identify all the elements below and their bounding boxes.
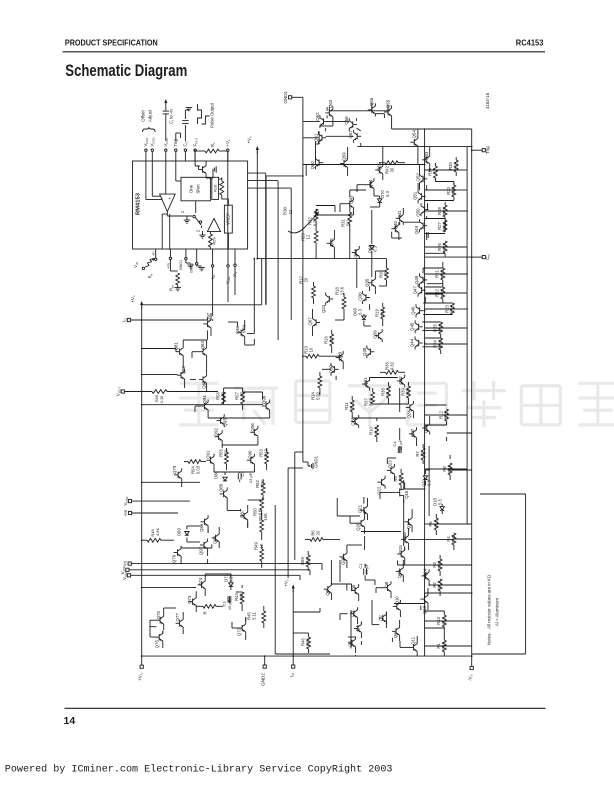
svg-text:GND1: GND1 [314,455,319,468]
svg-text:Q38: Q38 [362,347,367,356]
svg-text:GND1: GND1 [283,90,288,103]
svg-text:Q35: Q35 [364,278,369,287]
svg-text:Q15: Q15 [398,545,403,554]
svg-text:Q33: Q33 [321,304,326,313]
svg-text:Q36: Q36 [358,292,363,301]
svg-text:Q50: Q50 [416,208,421,217]
svg-text:6.8: 6.8 [305,557,310,563]
svg-text:4.82: 4.82 [390,361,395,370]
svg-text:C4: C4 [392,441,397,447]
svg-text:Q16: Q16 [402,532,407,541]
svg-text:Q40: Q40 [393,220,398,229]
svg-text:Trig: Trig [485,146,490,154]
svg-text:12: 12 [288,209,293,214]
svg-text:Q72: Q72 [237,627,242,636]
svg-text:Q31: Q31 [363,377,368,386]
svg-text:Q46: Q46 [411,306,416,315]
svg-text:Q42: Q42 [329,238,334,247]
svg-text:13 pF: 13 pF [248,472,253,483]
svg-text:20: 20 [316,530,321,535]
svg-text:Q4: Q4 [355,625,360,631]
svg-text:Q52: Q52 [416,173,421,182]
svg-text:Q76: Q76 [156,610,161,619]
svg-text:NPN: NPN [242,325,247,334]
svg-text:Q21: Q21 [357,504,362,513]
svg-text:51.1: 51.1 [349,401,354,410]
svg-text:Q66: Q66 [235,325,240,334]
svg-text:GND2: GND2 [261,673,266,686]
svg-text:Q78: Q78 [172,554,177,563]
svg-text:Q18: Q18 [404,490,409,498]
svg-text:+: + [167,197,172,200]
svg-text:Q77: Q77 [175,613,180,622]
svg-text:200: 200 [239,593,244,601]
svg-text:Q12: Q12 [397,569,402,578]
svg-text:Q58: Q58 [344,116,349,125]
svg-text:Q5: Q5 [350,610,355,616]
svg-text:C3: C3 [222,601,227,607]
svg-text:10: 10 [309,347,314,352]
svg-text:Q8: Q8 [384,581,389,587]
svg-text:GND2: GND2 [190,263,194,274]
svg-text:Powered by ICminer.com Electro: Powered by ICminer.com Electronic-Librar… [5,763,393,775]
svg-text:47.5: 47.5 [374,426,379,435]
svg-text:Q74: Q74 [198,577,203,586]
svg-text:R30: R30 [283,206,288,214]
svg-text:Q27: Q27 [410,428,415,437]
svg-text:Q11: Q11 [411,636,416,645]
svg-text:0.02: 0.02 [240,391,245,400]
svg-text:Q91: Q91 [205,450,210,459]
svg-text:14: 14 [64,715,76,727]
svg-text:6.3: 6.3 [385,190,390,196]
svg-text:Q56: Q56 [369,97,374,106]
svg-text:15 pF: 15 pF [398,439,403,450]
svg-text:Q92: Q92 [214,427,219,436]
svg-text:5.11: 5.11 [252,611,257,620]
svg-text:16K: 16K [263,513,268,521]
svg-text:Q84: Q84 [213,535,218,544]
svg-text:6.3: 6.3 [373,245,378,251]
svg-text:Adjust: Adjust [148,109,153,122]
svg-text:Q79: Q79 [172,465,177,474]
svg-text:20: 20 [329,337,334,342]
svg-text:12: 12 [306,234,311,239]
svg-text:Q93: Q93 [223,418,228,427]
svg-text:Q2: Q2 [325,589,330,595]
svg-text:Q85: Q85 [219,483,224,492]
svg-text:Q86: Q86 [199,523,204,532]
svg-text:Q94: Q94 [202,395,207,404]
svg-text:PRODUCT SPECIFICATION: PRODUCT SPECIFICATION [65,38,158,47]
svg-text:One: One [189,184,194,193]
svg-text:C1: C1 [358,563,363,569]
svg-text:Q67: Q67 [308,317,313,326]
svg-text:4153-15: 4153-15 [485,92,490,109]
svg-text:Q34: Q34 [353,249,358,258]
svg-text:Q3: Q3 [348,641,353,647]
svg-text:20: 20 [398,476,403,481]
svg-text:Q9: Q9 [393,632,398,638]
svg-text:0.15: 0.15 [159,395,164,404]
svg-text:24.3: 24.3 [386,387,391,396]
svg-text:RM4153: RM4153 [136,192,142,215]
svg-text:Q96: Q96 [250,423,255,432]
svg-text:Q62: Q62 [315,112,320,121]
svg-text:Q14: Q14 [423,568,428,577]
svg-text:Q41: Q41 [397,210,402,219]
svg-text:6.3: 6.3 [358,308,363,314]
svg-text:Shot: Shot [196,184,201,194]
svg-text:Q45: Q45 [410,322,415,331]
svg-text:R: R [202,611,207,614]
svg-text:Q57: Q57 [348,130,353,139]
svg-text:Q83: Q83 [200,340,205,349]
svg-text:4.8K: 4.8K [155,528,160,537]
svg-text:-In: -In [152,252,156,256]
svg-text:Q7: Q7 [378,615,383,621]
svg-text:Q82: Q82 [202,380,207,389]
svg-text:20: 20 [420,451,425,456]
svg-text:GND1: GND1 [179,260,183,271]
svg-text:Q44: Q44 [410,338,415,347]
svg-text:R59: R59 [212,237,217,245]
svg-text:Al = Aluminum: Al = Aluminum [495,598,500,627]
svg-text:5.11: 5.11 [380,308,385,317]
svg-text:20: 20 [304,277,309,282]
svg-text:0.03: 0.03 [196,465,201,474]
svg-text:Q32: Q32 [398,376,403,385]
svg-text:Schematic Diagram: Schematic Diagram [65,61,187,80]
svg-text:Offset: Offset [141,110,146,122]
svg-text:Q63: Q63 [328,99,333,108]
svg-text:Q60: Q60 [310,160,315,169]
svg-text:5.5: 5.5 [438,498,443,504]
svg-text:Q64: Q64 [368,179,373,188]
svg-text:Q47: Q47 [413,285,418,294]
svg-text:Q90: Q90 [247,450,252,459]
svg-text:+In: +In [123,509,128,516]
svg-text:Q97: Q97 [206,312,211,321]
svg-text:Q54: Q54 [411,129,416,138]
svg-text:30: 30 [390,167,395,172]
svg-text:+In: +In [166,263,170,268]
svg-text:Pulse Output: Pulse Output [210,102,215,128]
svg-text:Q49: Q49 [414,225,419,234]
svg-text:Q22: Q22 [377,486,382,495]
svg-text:Q39: Q39 [373,330,378,339]
svg-text:Q59: Q59 [342,152,347,161]
svg-text:9.6: 9.6 [406,388,411,394]
svg-text:Q48: Q48 [414,275,419,284]
svg-text:R18: R18 [212,184,217,192]
svg-text:Q75: Q75 [155,639,160,648]
svg-text:Q23: Q23 [387,460,392,469]
svg-text:Notes: All resistor values a: Notes: All resistor values are in KΩ [487,574,492,645]
svg-text:RC4153: RC4153 [516,37,544,47]
svg-text:Q73: Q73 [187,595,192,604]
svg-text:Q53: Q53 [424,151,429,160]
svg-text:8.25: 8.25 [453,161,458,170]
svg-text:15: 15 [384,271,389,276]
svg-text:Q26: Q26 [340,556,345,565]
svg-text:D89: D89 [176,527,181,535]
svg-text:Q13: Q13 [422,605,427,614]
svg-text:Q51: Q51 [413,191,418,200]
svg-text:6.8K: 6.8K [306,637,311,646]
svg-text:Q65: Q65 [377,162,382,171]
svg-text:Q43: Q43 [348,195,353,204]
svg-text:8.25: 8.25 [451,186,456,195]
svg-text:Q24: Q24 [406,410,411,419]
svg-text:3.65: 3.65 [369,397,374,406]
